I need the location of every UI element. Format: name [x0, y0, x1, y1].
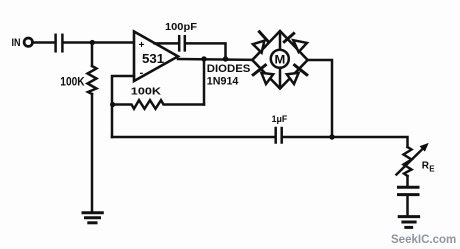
- wire resistor to ground: [91, 94, 94, 212]
- svg-text:1N914: 1N914: [207, 75, 239, 87]
- resistor RE (variable): [404, 147, 412, 176]
- wire junction down to resistor 100K: [91, 43, 94, 67]
- wire 100pF tap from op-amp top edge: [155, 42, 179, 45]
- capacitor input coupling: [56, 35, 63, 52]
- svg-text:100pF: 100pF: [165, 21, 198, 33]
- wire op-amp output to bridge: [178, 58, 253, 61]
- node input junction: [90, 40, 95, 45]
- wire junction to RE: [332, 137, 408, 147]
- capacitor C 100pF: [179, 36, 185, 50]
- arrow of variable resistor RE: [397, 143, 429, 175]
- svg-text:M: M: [275, 53, 286, 67]
- wire coupling capacitor to op-amp + input: [64, 41, 134, 44]
- svg-text:IN: IN: [12, 37, 21, 49]
- wire bridge right vertex to corner: [308, 60, 332, 137]
- node output/feedback junction: [201, 56, 206, 61]
- label RE: [422, 161, 436, 174]
- diode D2 1N914 (top-right edge): [284, 34, 307, 53]
- diode bridge frame: [252, 31, 307, 89]
- resistor 100K (feedback): [112, 100, 204, 109]
- wire input terminal to coupling capacitor: [33, 41, 55, 44]
- wire inverting node to 1uF capacitor: [112, 136, 274, 139]
- resistor 100K (input to ground): [88, 66, 97, 94]
- svg-text:1μF: 1μF: [272, 114, 288, 125]
- node inverting junction: [110, 102, 115, 107]
- diode D1 1N914 (top-left edge): [253, 32, 268, 53]
- node output/100pF junction: [223, 56, 228, 61]
- ground (left): [83, 213, 102, 223]
- svg-text:100K: 100K: [60, 76, 85, 88]
- wire bypass capacitor to ground: [406, 196, 409, 216]
- diode D4 1N914 (bottom-right edge): [287, 65, 307, 84]
- svg-text:SeekIC.com: SeekIC.com: [391, 232, 456, 246]
- svg-text:100K: 100K: [131, 86, 162, 98]
- label DIODES 1N914: [207, 63, 251, 87]
- wire 1uF capacitor to junction: [283, 136, 332, 139]
- diode D3 1N914 (bottom-left edge): [253, 65, 273, 84]
- svg-text:+: +: [139, 40, 145, 51]
- wire RE to bypass capacitor: [406, 176, 409, 186]
- capacitor bypass (bottom right): [399, 187, 419, 194]
- wire feedback resistor up to output: [203, 59, 206, 105]
- op-amp U1 531: [134, 32, 178, 82]
- svg-text:-: -: [140, 67, 144, 79]
- capacitor C 1uF: [276, 128, 282, 143]
- svg-text:E: E: [429, 165, 435, 174]
- wire 100pF to output junction: [186, 43, 226, 59]
- wire op-amp inverting input: [112, 76, 134, 137]
- motor M: [271, 32, 289, 88]
- svg-text:DIODES: DIODES: [207, 63, 251, 75]
- svg-text:531: 531: [142, 51, 164, 66]
- node bottom-right junction: [329, 134, 334, 139]
- ground (right): [399, 217, 418, 228]
- input terminal IN: [24, 38, 32, 46]
